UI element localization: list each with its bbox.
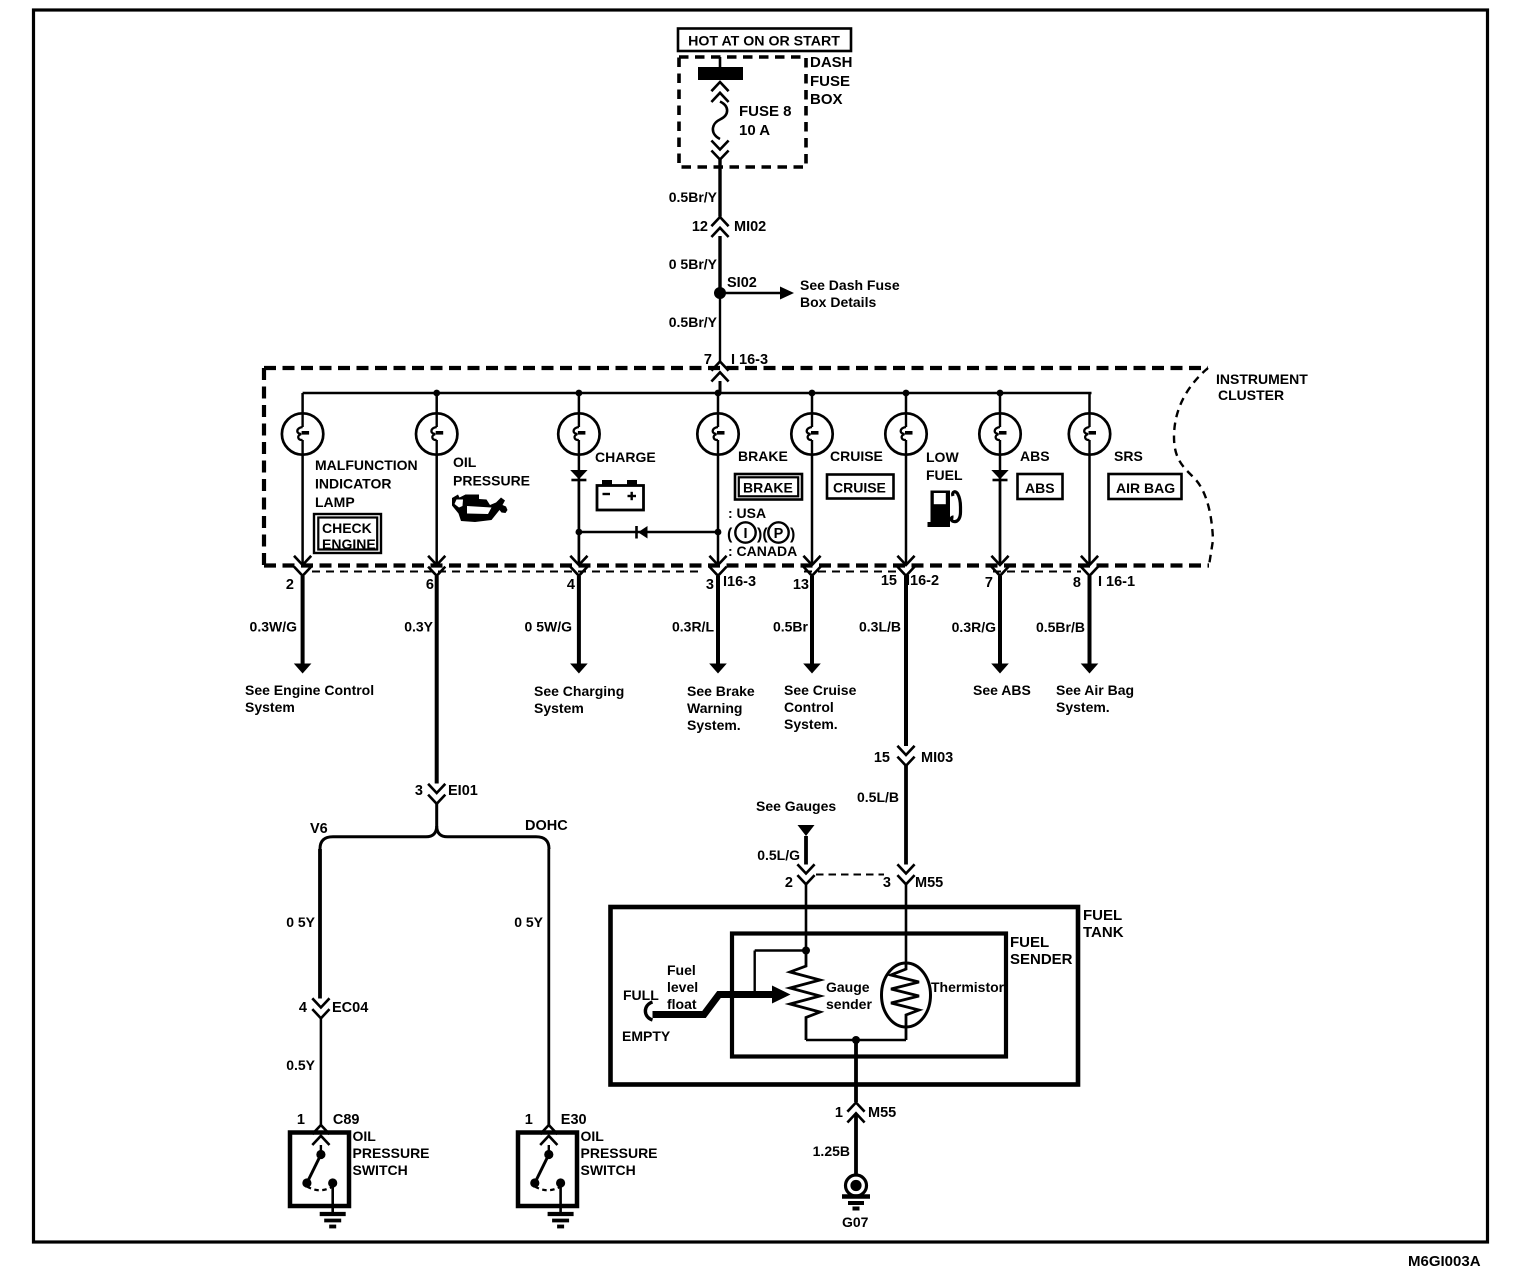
svg-text:4: 4 (299, 1000, 307, 1016)
svg-text:Thermistor: Thermistor (931, 979, 1005, 995)
svg-text:1: 1 (525, 1112, 533, 1128)
svg-text:0.5Br: 0.5Br (773, 619, 809, 635)
svg-text:FULL: FULL (623, 987, 659, 1003)
svg-text:I 16-1: I 16-1 (1098, 574, 1135, 590)
svg-text:0.3L/B: 0.3L/B (859, 619, 901, 635)
svg-text:See Dash Fuse: See Dash Fuse (800, 277, 900, 293)
svg-text:2: 2 (785, 875, 793, 891)
svg-text:See Engine Control: See Engine Control (245, 682, 374, 698)
svg-text:ENGINE: ENGINE (322, 536, 376, 552)
svg-text:ABS: ABS (1025, 480, 1055, 496)
svg-text:MALFUNCTION: MALFUNCTION (315, 457, 418, 473)
svg-text:10 A: 10 A (739, 122, 770, 139)
svg-text:M6GI003A: M6GI003A (1408, 1253, 1481, 1270)
svg-text:LOW: LOW (926, 449, 959, 465)
svg-text:MI02: MI02 (734, 219, 766, 235)
svg-text:0.5Br/Y: 0.5Br/Y (669, 189, 718, 205)
svg-text:0 5Y: 0 5Y (514, 914, 543, 930)
svg-text:Fuel: Fuel (667, 962, 696, 978)
svg-text:ABS: ABS (1020, 448, 1050, 464)
svg-text:0.5L/B: 0.5L/B (857, 789, 899, 805)
svg-text:OIL: OIL (353, 1128, 377, 1144)
svg-text:(: ( (727, 526, 733, 543)
svg-text:EC04: EC04 (332, 1000, 368, 1016)
svg-text:PRESSURE: PRESSURE (353, 1145, 430, 1161)
svg-text:)(: )( (757, 526, 768, 543)
svg-text:0.3R/L: 0.3R/L (672, 619, 714, 635)
svg-text:0.5L/G: 0.5L/G (757, 847, 800, 863)
svg-text:7: 7 (704, 352, 712, 368)
svg-text:SI02: SI02 (727, 275, 757, 291)
svg-text:PRESSURE: PRESSURE (581, 1145, 658, 1161)
svg-text:System.: System. (687, 717, 741, 733)
svg-text:Control: Control (784, 699, 834, 715)
svg-text:FUEL: FUEL (926, 467, 963, 483)
svg-text:PRESSURE: PRESSURE (453, 473, 530, 489)
svg-text:AIR BAG: AIR BAG (1116, 480, 1175, 496)
svg-text:INSTRUMENT: INSTRUMENT (1216, 371, 1308, 387)
svg-text:System.: System. (1056, 699, 1110, 715)
svg-text:See Gauges: See Gauges (756, 798, 836, 814)
svg-text:P: P (774, 526, 784, 542)
svg-text:0 5Br/Y: 0 5Br/Y (669, 256, 718, 272)
svg-text:0.3R/G: 0.3R/G (952, 619, 996, 635)
svg-text:See Brake: See Brake (687, 683, 755, 699)
svg-text:level: level (667, 979, 698, 995)
svg-text:0.5Y: 0.5Y (286, 1057, 315, 1073)
svg-text:FUSE: FUSE (810, 73, 850, 90)
svg-text:: USA: : USA (728, 505, 766, 521)
svg-text:See ABS: See ABS (973, 682, 1031, 698)
svg-text:1: 1 (835, 1105, 843, 1121)
svg-text:EI01: EI01 (448, 783, 478, 799)
svg-text:0 5W/G: 0 5W/G (525, 619, 573, 635)
svg-text:OIL: OIL (453, 454, 477, 470)
svg-text:System: System (534, 700, 584, 716)
svg-text:See Cruise: See Cruise (784, 682, 857, 698)
svg-text:: CANADA: : CANADA (728, 543, 797, 559)
svg-text:HOT AT ON OR START: HOT AT ON OR START (688, 34, 840, 50)
svg-text:Warning: Warning (687, 700, 742, 716)
svg-text:OIL: OIL (581, 1128, 605, 1144)
svg-text:CRUISE: CRUISE (830, 448, 883, 464)
svg-text:M55: M55 (915, 875, 943, 891)
svg-text:See Charging: See Charging (534, 683, 624, 699)
svg-text:E30: E30 (561, 1112, 587, 1128)
svg-text:FUEL: FUEL (1083, 907, 1122, 924)
svg-text:SWITCH: SWITCH (581, 1162, 636, 1178)
svg-text:4: 4 (567, 577, 575, 593)
svg-text:15: 15 (874, 750, 890, 766)
svg-text:3: 3 (883, 875, 891, 891)
svg-text:): ) (790, 526, 795, 543)
svg-text:V6: V6 (310, 821, 328, 837)
svg-text:SENDER: SENDER (1010, 951, 1073, 968)
svg-text:System: System (245, 699, 295, 715)
svg-text:0.3Y: 0.3Y (404, 619, 433, 635)
svg-text:1.25B: 1.25B (813, 1143, 850, 1159)
svg-text:BRAKE: BRAKE (738, 448, 788, 464)
svg-text:G07: G07 (842, 1214, 869, 1230)
svg-text:CHARGE: CHARGE (595, 449, 656, 465)
svg-text:13: 13 (793, 577, 809, 593)
svg-text:DASH: DASH (810, 54, 853, 71)
svg-text:SWITCH: SWITCH (353, 1162, 408, 1178)
svg-text:CLUSTER: CLUSTER (1218, 387, 1284, 403)
svg-text:M55: M55 (868, 1105, 896, 1121)
svg-text:6: 6 (426, 577, 434, 593)
svg-text:CHECK: CHECK (322, 520, 372, 536)
svg-text:System.: System. (784, 716, 838, 732)
svg-text:DOHC: DOHC (525, 818, 568, 834)
svg-text:3: 3 (415, 783, 423, 799)
svg-text:INDICATOR: INDICATOR (315, 476, 391, 492)
svg-text:Box Details: Box Details (800, 294, 876, 310)
svg-text:BOX: BOX (810, 91, 843, 108)
svg-text:0.3W/G: 0.3W/G (250, 619, 298, 635)
svg-text:LAMP: LAMP (315, 494, 355, 510)
svg-text:TANK: TANK (1083, 924, 1124, 941)
svg-text:See Air Bag: See Air Bag (1056, 682, 1134, 698)
svg-text:float: float (667, 996, 697, 1012)
svg-text:0.5Br/Y: 0.5Br/Y (669, 314, 718, 330)
svg-text:I 16-3: I 16-3 (731, 352, 768, 368)
svg-text:C89: C89 (333, 1112, 360, 1128)
svg-text:1: 1 (297, 1112, 305, 1128)
svg-text:7: 7 (985, 575, 993, 591)
svg-text:BRAKE: BRAKE (743, 480, 793, 496)
svg-text:MI03: MI03 (921, 750, 953, 766)
svg-text:SRS: SRS (1114, 448, 1143, 464)
svg-text:Gauge: Gauge (826, 979, 870, 995)
svg-text:FUSE 8: FUSE 8 (739, 103, 792, 120)
svg-text:12: 12 (692, 219, 708, 235)
svg-text:I16-3: I16-3 (723, 574, 756, 590)
svg-text:8: 8 (1073, 575, 1081, 591)
svg-text:3: 3 (706, 577, 714, 593)
svg-text:EMPTY: EMPTY (622, 1028, 671, 1044)
svg-text:0.5Br/B: 0.5Br/B (1036, 619, 1085, 635)
svg-text:2: 2 (286, 577, 294, 593)
svg-text:FUEL: FUEL (1010, 934, 1049, 951)
svg-text:I16-2: I16-2 (906, 573, 939, 589)
svg-text:sender: sender (826, 996, 872, 1012)
svg-text:15: 15 (881, 573, 897, 589)
svg-text:I: I (743, 526, 747, 542)
svg-text:0 5Y: 0 5Y (286, 914, 315, 930)
svg-text:CRUISE: CRUISE (833, 480, 886, 496)
